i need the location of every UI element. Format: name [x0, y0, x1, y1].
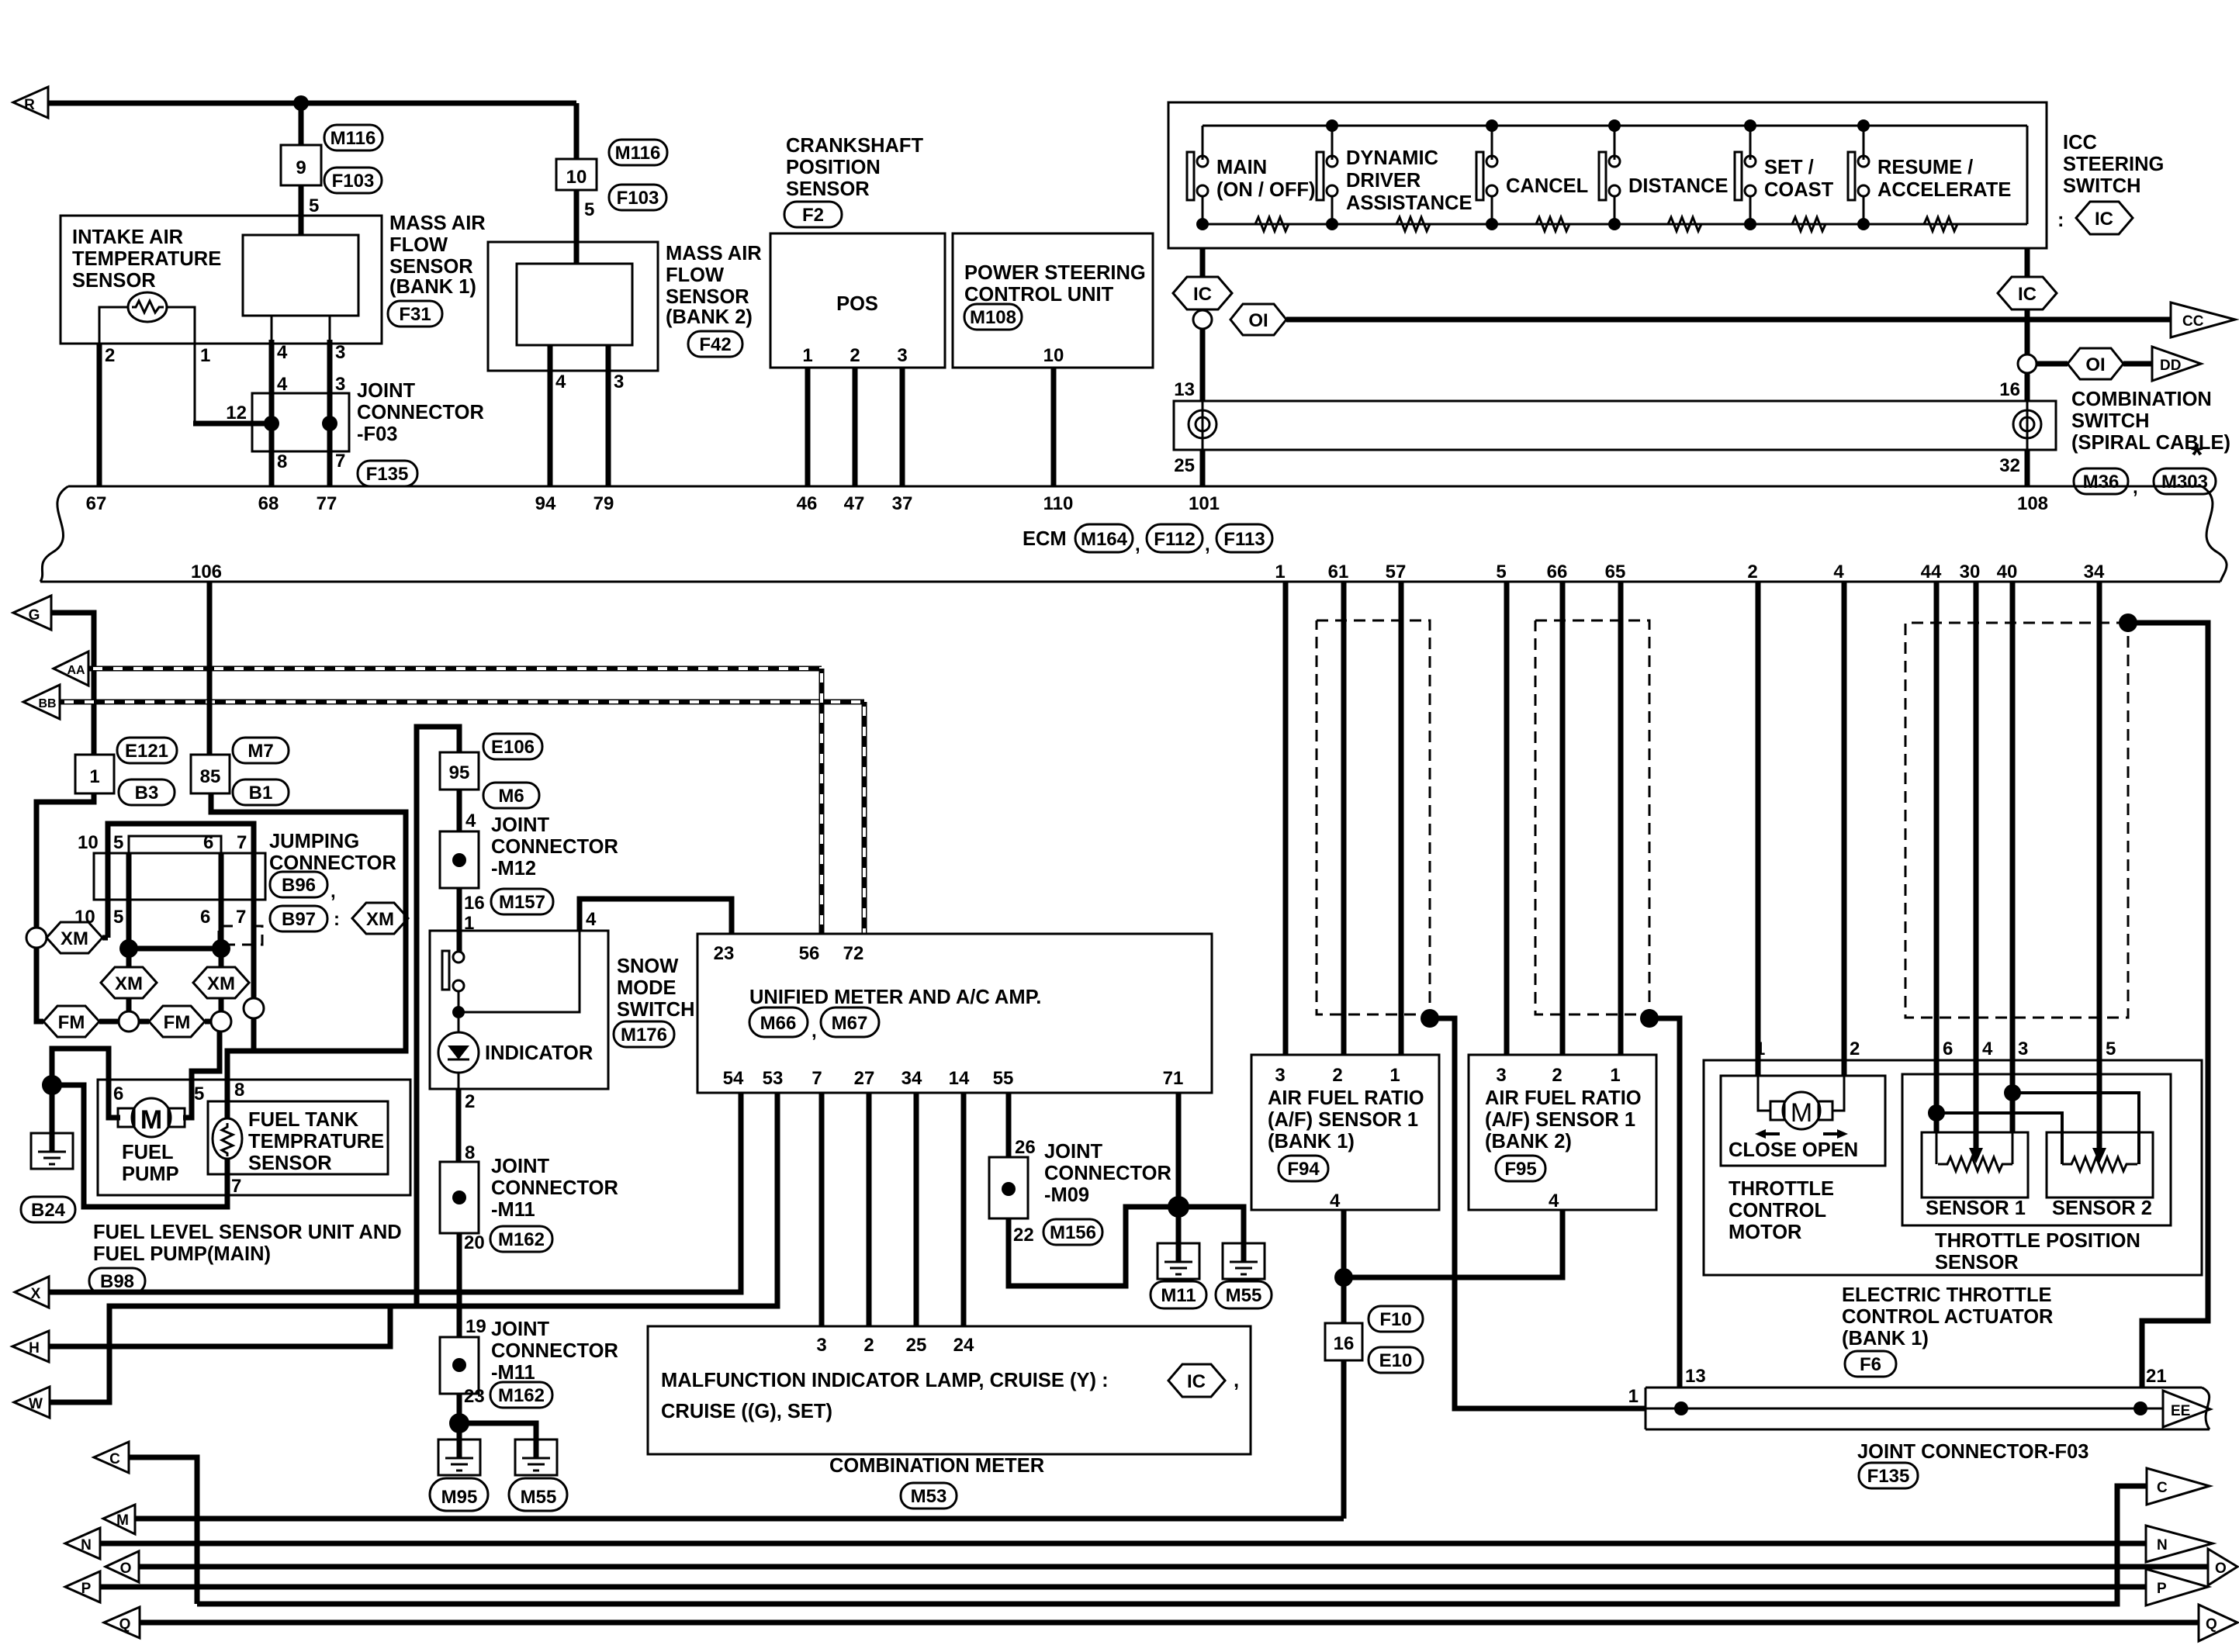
svg-text:7: 7 [237, 832, 247, 853]
wire ECM 34 to sensor pin5 [2097, 582, 2102, 1148]
svg-text:16: 16 [464, 893, 485, 914]
wire ECM 65 to AF2 pin1 [1618, 582, 1624, 1055]
svg-text:M55: M55 [521, 1487, 557, 1508]
svg-text:MAIN: MAIN [1216, 157, 1267, 178]
resistor after DISTANCE [1662, 217, 1705, 231]
svg-text:94: 94 [535, 493, 556, 514]
throttle position sensor region box [1902, 1074, 2171, 1225]
joint connector -F03 box [252, 393, 349, 451]
connector oval F103 [324, 168, 382, 193]
switch DYNAMIC DRIVER ASSISTANCE [1317, 126, 1338, 230]
SEC8 unified meter [697, 934, 1212, 1326]
svg-text:M55: M55 [1226, 1285, 1262, 1306]
SEC5 left arrows [13, 582, 864, 934]
spiral connector right [2013, 410, 2041, 438]
page-link arrow C right [2147, 1468, 2210, 1505]
switch SET/COAST [1735, 126, 1756, 230]
wire 10 to MAF2 pin 5 [574, 190, 580, 264]
svg-text:1: 1 [1275, 562, 1285, 582]
svg-text:ICC: ICC [2063, 132, 2097, 154]
svg-text:53: 53 [763, 1068, 784, 1089]
joint connector -M12 box [440, 831, 479, 888]
svg-text:AIR FUEL RATIO: AIR FUEL RATIO [1268, 1087, 1424, 1109]
junction dot AF pin4 [1334, 1268, 1353, 1287]
svg-text:M36: M36 [2083, 472, 2120, 492]
svg-text:SENSOR: SENSOR [786, 178, 870, 200]
svg-text:THROTTLE POSITION: THROTTLE POSITION [1935, 1230, 2140, 1252]
svg-text:57: 57 [1386, 562, 1407, 582]
svg-text:8: 8 [234, 1080, 244, 1101]
svg-text:1: 1 [89, 766, 99, 787]
connector box 16 (F10/E10) [1325, 1323, 1362, 1360]
ECM band bottom edge [40, 581, 2220, 583]
ground symbol M11 [1158, 1243, 1199, 1279]
svg-text:SENSOR 1: SENSOR 1 [1926, 1198, 2026, 1219]
svg-text:EE: EE [2171, 1403, 2190, 1419]
wire M line to AF sensors [135, 1516, 1344, 1522]
connector oval M116 [324, 125, 382, 150]
shield drain wire AF1 to F03b pin1 [1430, 1018, 1646, 1408]
wire R feed down to connector 10 [574, 103, 580, 159]
junction dot fuel ground [42, 1075, 62, 1095]
svg-text:56: 56 [799, 943, 820, 964]
connector oval F2 [784, 202, 842, 227]
svg-text:JOINT: JOINT [491, 1156, 550, 1177]
svg-text:32: 32 [1999, 455, 2020, 476]
wires spiral to ECM [1200, 450, 1206, 486]
svg-text:CONTROL UNIT: CONTROL UNIT [964, 284, 1114, 306]
wire connector1 down to XM circle [36, 793, 94, 928]
svg-text:FLOW: FLOW [389, 234, 448, 256]
connector box 9 (M116/F103) [281, 145, 321, 185]
svg-text:55: 55 [993, 1068, 1014, 1089]
svg-text:108: 108 [2017, 493, 2048, 514]
ground symbol M95 [438, 1439, 480, 1475]
wire col6 to dot [219, 900, 224, 949]
resistor after CANCEL [1530, 217, 1573, 231]
motor M [1758, 1076, 1770, 1111]
wire G to connector 1 [51, 613, 94, 755]
wire pin3 jog to sensor2 [2012, 1093, 2139, 1164]
svg-text:3: 3 [1496, 1065, 1506, 1086]
svg-text:7: 7 [236, 907, 246, 928]
svg-text:34: 34 [901, 1068, 922, 1089]
page-link arrow O left [106, 1551, 139, 1582]
wire H joining W line [49, 1306, 390, 1346]
svg-text:2: 2 [1850, 1039, 1860, 1059]
svg-text:IC: IC [2018, 284, 2037, 305]
svg-text:2: 2 [1332, 1065, 1342, 1086]
sensor2 potentiometer [2062, 1157, 2137, 1171]
svg-text:F10: F10 [1379, 1309, 1411, 1330]
svg-text:CONNECTOR: CONNECTOR [1044, 1163, 1171, 1184]
svg-text:MASS AIR: MASS AIR [666, 243, 762, 264]
svg-text:ACCELERATE: ACCELERATE [1877, 179, 2011, 201]
wire IAT pin 2 [99, 307, 129, 344]
svg-text:22: 22 [1013, 1225, 1034, 1246]
svg-text:4: 4 [1833, 562, 1844, 582]
svg-text:5: 5 [309, 195, 319, 216]
svg-text:110: 110 [1043, 493, 1074, 514]
svg-text:79: 79 [593, 493, 614, 514]
svg-text:5: 5 [2106, 1039, 2116, 1059]
svg-text:CLOSE OPEN: CLOSE OPEN [1729, 1139, 1858, 1161]
svg-text:JOINT CONNECTOR-F03: JOINT CONNECTOR-F03 [1857, 1441, 2088, 1463]
svg-text:47: 47 [844, 493, 865, 514]
svg-text:AIR FUEL RATIO: AIR FUEL RATIO [1485, 1087, 1642, 1109]
wire ECM 40 to sensor pin3 [2010, 582, 2016, 1132]
svg-text:4: 4 [277, 342, 288, 363]
svg-text:M6: M6 [498, 786, 524, 807]
wire MAF1 pin 4 [271, 316, 273, 340]
shield drain dot AF2 [1640, 1009, 1659, 1028]
svg-text:M116: M116 [615, 143, 661, 164]
sensor2 box [2047, 1132, 2153, 1198]
connector oval M108 [964, 304, 1022, 330]
svg-text:M7: M7 [247, 741, 273, 762]
svg-text:X: X [31, 1286, 41, 1302]
svg-text:7: 7 [231, 1176, 241, 1197]
wire meter 71 to ground dot [1176, 1093, 1182, 1207]
svg-text:13: 13 [1174, 379, 1195, 400]
connector oval M116 b [609, 140, 667, 165]
fuel tank thermistor [213, 1118, 242, 1159]
svg-text:5: 5 [113, 832, 123, 853]
connector oval F103 b [609, 185, 666, 210]
sensor1 box [1922, 1132, 2028, 1198]
wire 95 to M12 [457, 790, 462, 831]
switch CANCEL [1476, 126, 1498, 230]
hexagon FM tag 2 [149, 1006, 205, 1037]
fuel level sensor unit outer box [98, 1080, 410, 1195]
resistor after DYNAMIC [1390, 217, 1434, 231]
svg-text:CONNECTOR: CONNECTOR [357, 402, 484, 423]
SEC13 bottom arrows [65, 1442, 2237, 1641]
wire to connector 9 [299, 103, 304, 145]
svg-text:E121: E121 [125, 741, 168, 762]
svg-text:TEMPRATURE: TEMPRATURE [248, 1131, 384, 1153]
wire ECM 66 to AF2 pin2 [1560, 582, 1566, 1055]
wire N line [100, 1541, 2146, 1547]
svg-text:F113: F113 [1223, 529, 1265, 550]
svg-text:4: 4 [1982, 1039, 1993, 1059]
svg-text:,: , [330, 881, 336, 902]
wire ICC left leg down [1200, 248, 1206, 277]
svg-text:M108: M108 [970, 307, 1016, 328]
shield dashed box AF2 [1535, 620, 1649, 1014]
svg-text:SENSOR: SENSOR [72, 270, 156, 292]
svg-text:5: 5 [1496, 562, 1506, 582]
svg-text:2: 2 [1747, 562, 1757, 582]
page-link arrow BB [23, 685, 60, 719]
snow mode switch box [430, 931, 608, 1089]
page-link arrow DD [2152, 347, 2201, 381]
circle junction A [119, 1011, 139, 1032]
page-link arrow N right [2146, 1526, 2213, 1562]
svg-text:F95: F95 [1504, 1159, 1536, 1180]
throttle control motor box [1721, 1076, 1885, 1166]
thick jumper pin10-pin7 [108, 824, 254, 853]
wire C line across [197, 1486, 2147, 1604]
svg-text:4: 4 [277, 374, 288, 395]
svg-text:B98: B98 [100, 1271, 134, 1292]
svg-text:5: 5 [584, 199, 594, 220]
svg-text:DYNAMIC: DYNAMIC [1346, 147, 1438, 169]
svg-text:MASS AIR: MASS AIR [389, 213, 486, 234]
svg-text:3: 3 [335, 374, 345, 395]
svg-text:(A/F) SENSOR 1: (A/F) SENSOR 1 [1485, 1109, 1635, 1131]
wire snow pin2 to M11 [458, 1073, 460, 1089]
page-link arrow P right [2146, 1569, 2208, 1605]
svg-text:9: 9 [296, 157, 306, 178]
svg-text:JOINT: JOINT [491, 814, 550, 836]
joint connector -M09 box [989, 1157, 1028, 1218]
svg-text:C: C [2157, 1480, 2168, 1496]
switch DISTANCE [1599, 126, 1621, 230]
wire right leg to spiral cable [2025, 373, 2030, 401]
svg-text:FUEL PUMP(MAIN): FUEL PUMP(MAIN) [93, 1243, 271, 1265]
svg-text:CONNECTOR: CONNECTOR [491, 1177, 618, 1199]
wire dot to sensor pin7 [52, 1085, 227, 1207]
hexagon XM tag 3 [219, 949, 224, 967]
svg-text:M53: M53 [911, 1486, 947, 1507]
hexagon FM tag 1 [43, 1006, 99, 1037]
wire ECM 2 to motor pin1 [1756, 582, 1761, 1076]
svg-text:25: 25 [906, 1335, 927, 1356]
svg-text:8: 8 [277, 451, 287, 472]
svg-text:F103: F103 [332, 171, 375, 192]
hexagon IC left [1173, 277, 1232, 309]
svg-text:(BANK 2): (BANK 2) [1485, 1131, 1572, 1153]
electric throttle control actuator box [1704, 1060, 2202, 1275]
wire left leg to spiral cable [1200, 329, 1206, 401]
wire C left to C line [129, 1457, 197, 1604]
shielded wire AA vertical to meter pin56 [819, 669, 825, 934]
connector oval F31 [388, 301, 442, 327]
svg-text:54: 54 [723, 1068, 744, 1089]
svg-text:O: O [2215, 1560, 2227, 1577]
air fuel ratio sensor bank1 box [1251, 1055, 1439, 1210]
svg-text:POS: POS [836, 293, 878, 315]
wire between dots [129, 946, 221, 952]
ICC steering switch outer box [1168, 102, 2047, 248]
junction circle at XM tap [26, 928, 47, 948]
close open arrows [1760, 1132, 1780, 1135]
svg-text::: : [2057, 209, 2064, 231]
thin jumper pin5-pin6 [129, 836, 221, 853]
svg-text:CANCEL: CANCEL [1506, 175, 1588, 197]
svg-text:E106: E106 [491, 737, 535, 758]
svg-text:M176: M176 [621, 1025, 667, 1045]
page-link arrow X [15, 1277, 49, 1308]
svg-text:2: 2 [863, 1335, 874, 1356]
svg-text:OI: OI [2085, 354, 2105, 375]
svg-text:INDICATOR: INDICATOR [485, 1042, 593, 1064]
svg-text:FUEL TANK: FUEL TANK [248, 1109, 359, 1131]
unified meter and A/C amp box [697, 934, 1212, 1093]
wire col7 down [251, 900, 257, 999]
circle junction B [211, 1011, 231, 1032]
combination meter box [648, 1326, 1251, 1454]
shielded wire AA [88, 666, 822, 672]
svg-text:40: 40 [1997, 562, 2018, 582]
wire MAF1 pin 3 [329, 316, 331, 340]
svg-text:4: 4 [465, 810, 476, 831]
svg-text:POSITION: POSITION [786, 157, 881, 178]
svg-text:IC: IC [1187, 1371, 1206, 1392]
wire ECM 4 to motor pin2 [1842, 582, 1847, 1076]
svg-text:MOTOR: MOTOR [1729, 1222, 1801, 1243]
option dashed box near pin7 [219, 926, 262, 945]
svg-text:CC: CC [2182, 313, 2204, 330]
wire OI to CC [1286, 317, 2171, 323]
SEC4 ecm band [40, 486, 2227, 582]
svg-text:INTAKE AIR: INTAKE AIR [72, 226, 183, 248]
svg-text:TEMPERATURE: TEMPERATURE [72, 248, 221, 270]
svg-text:FUEL: FUEL [122, 1142, 174, 1163]
svg-text:25: 25 [1174, 455, 1195, 476]
svg-text:SWITCH: SWITCH [2071, 410, 2150, 432]
connector oval F135 [358, 461, 417, 486]
svg-text:B3: B3 [135, 783, 159, 804]
wire ECM 57 to AF1 pin1 [1399, 582, 1404, 1055]
page-link arrow CC [2171, 302, 2235, 337]
wire M11a to M11b [457, 1233, 462, 1337]
svg-text:F42: F42 [699, 334, 731, 355]
ground symbol M55 b [1223, 1243, 1265, 1279]
svg-text:3: 3 [816, 1335, 826, 1356]
wire O line [139, 1564, 2208, 1570]
wire M09 pin22 loop to ground junction [1009, 1207, 1244, 1286]
spiral connector left [1189, 410, 1216, 438]
wire meter 27 to comb meter 2 [867, 1093, 872, 1326]
svg-text:SENSOR: SENSOR [389, 256, 473, 278]
wire ICC right leg down [2025, 248, 2030, 277]
svg-text:F6: F6 [1860, 1354, 1881, 1375]
junction dot pin3 [2004, 1084, 2021, 1101]
svg-text:F31: F31 [399, 304, 431, 325]
page-link arrow R [13, 87, 48, 118]
svg-text:77: 77 [317, 493, 337, 514]
wire IAT pin 1 to joint connector pin 12 [166, 307, 195, 423]
svg-text:72: 72 [843, 943, 864, 964]
svg-text:CRUISE ((G), SET): CRUISE ((G), SET) [661, 1401, 832, 1422]
ECM band top edge [68, 486, 2202, 488]
svg-text:13: 13 [1685, 1366, 1706, 1387]
svg-text:1: 1 [1610, 1065, 1620, 1086]
svg-text:M157: M157 [499, 892, 545, 913]
wire R main feed [48, 101, 576, 106]
svg-text:F103: F103 [617, 188, 659, 209]
svg-text:B96: B96 [282, 875, 316, 896]
page-link arrow H [12, 1331, 49, 1362]
joint connector -M11 box a [440, 1162, 479, 1233]
wire XM to jumping connector pin10 [102, 935, 108, 941]
svg-text:JOINT: JOINT [1044, 1141, 1103, 1163]
mass air flow sensor bank2 outer box [488, 242, 658, 371]
svg-text:F112: F112 [1154, 529, 1195, 550]
svg-text:CONTROL ACTUATOR: CONTROL ACTUATOR [1842, 1306, 2053, 1328]
svg-text:(A/F) SENSOR 1: (A/F) SENSOR 1 [1268, 1109, 1418, 1131]
svg-text:POWER STEERING: POWER STEERING [964, 262, 1146, 284]
fuel pump motor [118, 1108, 134, 1127]
svg-text:ASSISTANCE: ASSISTANCE [1346, 192, 1472, 214]
svg-text:-M09: -M09 [1044, 1184, 1089, 1206]
wire MAF2 pin 4 [548, 345, 553, 486]
wire POS pin2 [853, 368, 858, 486]
svg-text:OI: OI [1248, 310, 1268, 331]
svg-text:2: 2 [465, 1091, 475, 1112]
svg-text:44: 44 [1921, 562, 1942, 582]
wire 16 to M line [1341, 1360, 1347, 1519]
svg-text:M162: M162 [498, 1229, 545, 1250]
wire POS pin3 [900, 368, 905, 486]
svg-text:P: P [2157, 1581, 2167, 1597]
shield dashed box AF1 [1317, 620, 1430, 1014]
svg-text:SENSOR: SENSOR [1935, 1252, 2019, 1274]
wire pin6 jog to sensor2 [1936, 1113, 2062, 1164]
wire col5 to dot [126, 900, 132, 949]
svg-text:34: 34 [2084, 562, 2105, 582]
svg-text:85: 85 [200, 766, 221, 787]
svg-text:95: 95 [449, 762, 470, 783]
svg-text:3: 3 [2018, 1039, 2028, 1059]
svg-text:(SPIRAL CABLE): (SPIRAL CABLE) [2071, 432, 2230, 454]
wire POS pin1 [805, 368, 811, 486]
resistor after MAIN [1249, 217, 1293, 231]
F03b internal line [1646, 1408, 2163, 1410]
connector box 85 (M7/B1) [191, 755, 230, 793]
hexagon XM tag 1 [47, 922, 102, 953]
ICC top bus wire [1203, 125, 2027, 127]
wire ECM 61 to AF1 pin2 [1341, 582, 1347, 1055]
svg-text:6: 6 [200, 907, 210, 928]
wire Q line [140, 1620, 2199, 1626]
IAT thermistor [128, 292, 167, 322]
wire W to meter pin 53 [50, 1093, 777, 1402]
hexagon XM tag 2 [126, 949, 132, 967]
svg-text:M164: M164 [1081, 529, 1128, 550]
SEC7 m12 snow indicator chain [12, 727, 777, 1511]
switch MAIN (ON/OFF) [1187, 126, 1209, 230]
sensor1 potentiometer [1938, 1157, 2012, 1171]
svg-text:CONTROL: CONTROL [1729, 1200, 1826, 1222]
connector oval F42 [688, 331, 742, 357]
svg-text:1: 1 [1389, 1065, 1400, 1086]
svg-text:1: 1 [1628, 1386, 1639, 1407]
right end vertical [2026, 126, 2029, 224]
wire AF2 pin4 joins dot [1344, 1210, 1562, 1277]
hexagon OI right [2068, 348, 2123, 379]
svg-text:*: * [2191, 438, 2203, 472]
page-link arrow O right [2208, 1549, 2237, 1585]
hexagon XM tag legend [352, 903, 408, 934]
svg-text:101: 101 [1189, 493, 1220, 514]
svg-text:IC: IC [1193, 284, 1212, 305]
svg-text:3: 3 [897, 345, 907, 366]
shield dashed box throttle [1905, 623, 2128, 1018]
svg-text:8: 8 [465, 1142, 475, 1163]
svg-text:Q: Q [119, 1616, 131, 1633]
svg-text:THROTTLE: THROTTLE [1729, 1178, 1834, 1200]
snow switch symbol [442, 951, 449, 990]
svg-text:12: 12 [226, 403, 247, 423]
svg-text:(BANK 1): (BANK 1) [1842, 1328, 1929, 1350]
svg-text:M11: M11 [1161, 1285, 1196, 1306]
page-link arrow G [13, 596, 51, 630]
svg-text:ECM: ECM [1023, 528, 1067, 550]
svg-text:M303: M303 [2161, 472, 2208, 492]
